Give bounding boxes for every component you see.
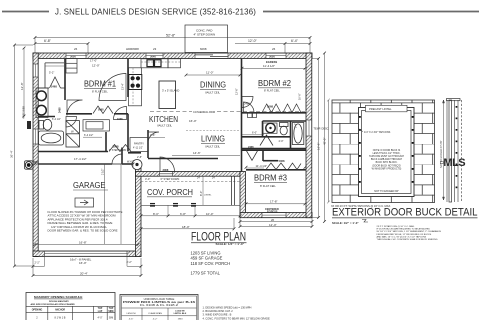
detail notes block (377, 225, 442, 241)
svg-text:3050: 3050 (269, 54, 275, 58)
svg-text:J. SNELL DANIELS DESIGN SERVIC: J. SNELL DANIELS DESIGN SERVICE (352-816… (55, 7, 256, 17)
kitchen sink double (147, 60, 161, 67)
kitchen dim 8'-4 (83, 134, 102, 137)
wall wh nook (128, 152, 141, 154)
svg-text:12’-0”: 12’-0” (92, 64, 100, 68)
svg-text:LESS THAN 1 1/2” THICK,: LESS THAN 1 1/2” THICK, (373, 152, 401, 155)
svg-text:6068: 6068 (200, 47, 207, 51)
svg-text:20’-4”: 20’-4” (80, 272, 88, 276)
door arc bath1 (67, 100, 83, 116)
detail big title (332, 207, 478, 219)
room label LIVING (201, 135, 225, 149)
svg-text:3040: 3040 (150, 54, 156, 58)
cathedral ridge dashed line (150, 111, 305, 113)
svg-text:TOP: TOP (98, 308, 103, 310)
dimension overall 52'-8" top (35, 38, 310, 54)
water heater (132, 160, 142, 170)
svg-text:8 1 W 1 B: 8 1 W 1 B (55, 316, 66, 319)
svg-text:BDRM #3: BDRM #3 (254, 174, 288, 183)
door arc wic (66, 117, 77, 128)
door jamb garage entry (121, 148, 123, 165)
vanity counter bath1 (36, 88, 48, 118)
svg-text:8’-0”: 8’-0” (153, 212, 159, 216)
wall garage bottom (33, 251, 141, 256)
svg-text:CATHEDRAL RDM: CATHEDRAL RDM (193, 110, 215, 114)
svg-text:FLOOR SLOPED 3% TOWARD OH DOOR: FLOOR SLOPED 3% TOWARD OH DOOR PER FOOTN… (48, 210, 123, 214)
door opening (359, 108, 415, 197)
wall left exterior garage (33, 162, 38, 257)
svg-text:2 1/2”: 2 1/2” (101, 168, 104, 175)
door 3068 porch opening (160, 172, 173, 176)
living clg dashed (186, 130, 240, 132)
linen closet bdrm1 (66, 59, 77, 74)
wall left exterior house (33, 53, 38, 162)
svg-text:10’-0”: 10’-0” (298, 93, 302, 100)
svg-text:THROUGH ALL S/C CONCRETE SLAB: THROUGH ALL S/C CONCRETE SLAB FOR BUCK S… (377, 238, 438, 241)
svg-text:5068: 5068 (98, 109, 104, 112)
bifold closet bdrm3 (266, 163, 301, 170)
window bdrm2 egress top wall (266, 53, 286, 58)
wall bath2 vanity divider (262, 121, 264, 137)
door leaf bdrm3 (247, 151, 258, 161)
door arc garage entry (112, 154, 122, 164)
wall living/porch south (136, 172, 241, 177)
svg-text:4’-0”: 4’-0” (279, 140, 284, 143)
svg-text:24: 24 (197, 177, 200, 180)
bath2 sink (266, 123, 275, 132)
svg-text:SIDE: SIDE (108, 311, 114, 313)
wall hall south (148, 158, 218, 160)
window bath top wall (66, 53, 86, 58)
buck center note block (369, 150, 404, 171)
wall bdrm3 south exterior (240, 213, 312, 218)
svg-text:16’-8”: 16’-8” (317, 143, 321, 150)
svg-text:8’ FLAT CEIL: 8’ FLAT CEIL (260, 184, 276, 188)
porch dim 18'-0 (141, 218, 234, 229)
interior walls (38, 59, 306, 172)
svg-text:(DOOR BUCK NOT REQ’D: (DOOR BUCK NOT REQ’D (372, 165, 401, 167)
svg-text:4’-11 1/2”: 4’-11 1/2” (133, 147, 143, 150)
kitchen upper cabinets dashed (133, 62, 181, 106)
bifold laundry (109, 145, 131, 152)
svg-text:W/ 1/4” X 2 3/4” TAPCONS, 1 1/: W/ 1/4” X 2 3/4” TAPCONS, 1 1/2” EMBEDME… (377, 230, 442, 233)
wall bdrm1 south (66, 113, 92, 115)
wall bdrm2 south closet (242, 112, 307, 114)
wall bdrm3 north double (242, 148, 307, 150)
wall top exterior (33, 53, 312, 59)
attic access garage (75, 198, 94, 207)
room label DINING (200, 81, 226, 95)
svg-text:24: 24 (212, 177, 215, 180)
dimension row second top (35, 44, 310, 54)
svg-text:1779 SF TOTAL: 1779 SF TOTAL (191, 270, 221, 275)
wall tub nook (290, 121, 292, 149)
svg-text:5’-2”: 5’-2” (49, 71, 54, 75)
detail left dim line (327, 99, 330, 204)
porch post labels 24 (197, 177, 215, 180)
dim 14'-6 living (172, 151, 240, 156)
right vertical dim line inner (312, 59, 319, 218)
wall bdrm2 west (241, 59, 243, 172)
svg-text:12’-0”: 12’-0” (269, 223, 277, 227)
counter left (129, 68, 142, 106)
svg-text:10’-0”: 10’-0” (206, 212, 213, 216)
title rule right (263, 11, 479, 13)
svg-text:6’-0”: 6’-0” (252, 132, 257, 135)
svg-text:16’-0”: 16’-0” (189, 119, 197, 123)
svg-text:11’-0”: 11’-0” (206, 71, 213, 75)
wall garage right / porch left (136, 166, 142, 257)
dim 11'-4 bdrm3 (246, 164, 267, 168)
FLOOR PLAN title (191, 232, 247, 244)
svg-text:ANCHOR: ANCHOR (55, 309, 65, 312)
laundry washer dryer (66, 121, 79, 147)
wall bath south jog (38, 116, 55, 118)
conc pad box (185, 25, 228, 53)
wall bath2 north (263, 120, 307, 122)
svg-text:ATTIC ACCESS 22”X30” W/ 36” MI: ATTIC ACCESS 22”X30” W/ 36” MIN HEADROOM (48, 214, 116, 218)
svg-text:ADD SIZE FOR MODULAR OPNG FRAM: ADD SIZE FOR MODULAR OPNG FRAMED (31, 303, 76, 306)
door arc closet bdrm2 (244, 102, 255, 113)
svg-text:2’-2”: 2’-2” (35, 261, 40, 265)
label egress bdrm2 (242, 60, 305, 69)
svg-text:12’-8”: 12’-8” (20, 82, 24, 90)
svg-text:1/2” DRYWALL FINISH W/ R-13 IN: 1/2” DRYWALL FINISH W/ R-13 INSUL (51, 225, 108, 229)
refrigerator (168, 59, 181, 68)
svg-text:6’-4”: 6’-4” (291, 39, 298, 43)
right vertical dim line outer (324, 53, 326, 222)
svg-text:PANTRY: PANTRY (134, 143, 144, 146)
detail hook symbol (362, 220, 368, 223)
door arc porch/living (160, 157, 175, 172)
svg-text:1203 SF LIVING: 1203 SF LIVING (191, 250, 221, 255)
svg-text:EXTERIOR DOOR BUCK DETAIL: EXTERIOR DOOR BUCK DETAIL (332, 207, 478, 219)
svg-text:SCALE: 1/4” = 1’-0”: SCALE: 1/4” = 1’-0” (216, 242, 245, 246)
door arc hall (114, 107, 127, 120)
label step down porch (145, 177, 179, 181)
svg-text:APPLIANCE PROTECTION PER FBCR: APPLIANCE PROTECTION PER FBCR 303.4 (48, 217, 109, 221)
svg-text:4’-6”: 4’-6” (150, 133, 155, 137)
svg-text:BUCK INTO BLOCK.: BUCK INTO BLOCK. (376, 162, 398, 164)
svg-text:BDRM #2: BDRM #2 (258, 79, 292, 88)
svg-text:▫MLS: ▫MLS (440, 157, 465, 169)
svg-text:2468: 2468 (244, 103, 250, 106)
range (129, 75, 142, 90)
door arc pantry (148, 132, 159, 143)
dim 16'-8 garage bottom (35, 240, 138, 244)
svg-text:MASONRY OPENING SCHEDULE: MASONRY OPENING SCHEDULE (34, 295, 83, 299)
svg-text:8’-0”: 8’-0” (199, 191, 203, 196)
room label BDRM #1 (84, 80, 116, 94)
dim extension lines garage (105, 164, 122, 244)
svg-text:4’-0”: 4’-0” (97, 316, 102, 319)
svg-text:6’-8”: 6’-8” (44, 39, 51, 43)
svg-text:2’-6”: 2’-6” (295, 123, 298, 128)
svg-text:AND MAX. 16” O.C. W/ (2) 1/4”: AND MAX. 16” O.C. W/ (2) 1/4” X 2 1/2” T… (377, 235, 427, 238)
bath2 vanity (263, 123, 277, 133)
svg-text:26: 26 (272, 47, 276, 51)
svg-text:17’-4 1/2”: 17’-4 1/2” (74, 157, 87, 161)
svg-text:45’-0”: 45’-0” (323, 138, 327, 145)
wall bdrm1 east (127, 59, 129, 98)
buck section side view (447, 99, 462, 203)
porch edge line (141, 204, 240, 206)
room label BDRM #3 (254, 174, 288, 189)
garage notes text block (48, 210, 123, 233)
svg-text:5068: 5068 (279, 159, 285, 163)
svg-text:DINING: DINING (200, 81, 226, 90)
wall bath/bdrm1 divider (64, 59, 66, 101)
room label BDRM #2 (258, 79, 292, 93)
dim 17'-4 garage (35, 157, 133, 168)
wic closet walls (38, 63, 65, 88)
svg-text:LINTEL BLK: LINTEL BLK (174, 313, 187, 315)
svg-text:OPENING: OPENING (32, 310, 43, 312)
brick wall (332, 100, 435, 203)
svg-text:52’-8”: 52’-8” (166, 34, 176, 38)
label centered egress bdrm3 (265, 208, 279, 214)
wall garage north (38, 163, 112, 165)
svg-text:LINTEL: LINTEL (204, 195, 212, 197)
island (159, 81, 176, 109)
bullseye marker (25, 161, 33, 169)
svg-text:13’-4”: 13’-4” (121, 83, 125, 90)
hall built-in counter (83, 120, 109, 131)
buck frame inner (362, 111, 412, 194)
svg-text:TEMP. DESC.: TEMP. DESC. (314, 128, 330, 131)
bath2 dim 6'-0 (242, 132, 264, 135)
pantry box (130, 138, 148, 152)
svg-text:DOOR BETWEEN GAR. & RES. TO BE: DOOR BETWEEN GAR. & RES. TO BE SOLID COR… (48, 229, 118, 233)
wall kitchen/hall east (147, 130, 149, 158)
porch east column line (232, 176, 235, 205)
room label KITCHEN (149, 115, 178, 128)
counter sink top (141, 59, 168, 68)
svg-text:4. CONC. FOOTERS TO BEAR MIN.: 4. CONC. FOOTERS TO BEAR MIN. 12” BELOW … (203, 316, 270, 320)
tub bath1 (39, 131, 64, 145)
svg-text:12’-0”: 12’-0” (248, 39, 257, 43)
dim 12'-0 below bdrm3 (240, 218, 312, 227)
svg-text:HDR8068: HDR8068 (126, 47, 139, 51)
svg-text:TAPCONS MUST GO THROUGH: TAPCONS MUST GO THROUGH (369, 155, 404, 158)
svg-text:3050: 3050 (70, 54, 76, 58)
svg-text:2X P.T. W/TAPCONS @ 16” O.C. M: 2X P.T. W/TAPCONS @ 16” O.C. MAX. (377, 225, 416, 228)
precast lintel label box (366, 105, 408, 112)
porch roof dashed line (141, 181, 240, 183)
dimension tick marks (13, 36, 326, 277)
svg-text:17’-8”: 17’-8” (270, 200, 277, 204)
left vertical dim line outer (15, 45, 34, 266)
svg-text:6’-4 1/2”: 6’-4 1/2” (52, 118, 61, 121)
svg-text:UNIFORM LOAD TABLE: UNIFORM LOAD TABLE (144, 297, 175, 301)
wic door leaf (50, 77, 61, 88)
svg-text:36’-4”: 36’-4” (10, 150, 14, 158)
title rule left (2, 11, 49, 13)
svg-text:FL 3108 & FL 3118.2: FL 3108 & FL 3118.2 (140, 304, 179, 307)
bdrm3 closet front (246, 169, 306, 171)
left vertical dim line inner (23, 48, 25, 116)
svg-text:459 SF GARAGE: 459 SF GARAGE (191, 256, 223, 261)
svg-text:TOP: TOP (109, 308, 114, 310)
svg-text:2468: 2468 (51, 84, 57, 88)
door arc bdrm2 (242, 97, 253, 108)
wall pantry (127, 114, 129, 152)
room label GARAGE (73, 180, 108, 190)
svg-text:3. WIND EXPOSURE : B: 3. WIND EXPOSURE : B (203, 313, 232, 317)
window kitchen top wall (146, 53, 163, 58)
svg-text:LENGTH: LENGTH (127, 313, 136, 315)
porch dim extension lines (141, 205, 240, 229)
svg-text:5068: 5068 (267, 105, 273, 109)
sliding glass door top wall (195, 53, 228, 58)
tapcon leader note (360, 129, 391, 134)
wall laundry west (105, 132, 107, 152)
door arc bath2 (260, 135, 273, 146)
svg-text:LIVING: LIVING (201, 135, 225, 144)
wic hanging rod (45, 65, 64, 67)
section dim line (443, 100, 445, 200)
bifold closet bdrm1 (93, 106, 113, 114)
svg-text:2. BUILDING RISK CAT. 2: 2. BUILDING RISK CAT. 2 (203, 309, 234, 313)
svg-text:23: 23 (153, 47, 157, 51)
svg-text:8’ FLAT CEIL: 8’ FLAT CEIL (264, 89, 280, 93)
wall bdrm3 closet L (262, 150, 264, 161)
svg-text:14’-6”: 14’-6” (193, 151, 201, 155)
svg-text:LAP: LAP (98, 310, 103, 313)
svg-text:4” STEP DOWN: 4” STEP DOWN (194, 33, 216, 37)
svg-text:IF DOOR BUCKS ARE REQUIRED TO: IF DOOR BUCKS ARE REQUIRED TO BE ATTACHE… (377, 228, 431, 231)
svg-text:FROM MASONRY EDGE, 12” FROM EN: FROM MASONRY EDGE, 12” FROM ENDS OF BUCK… (377, 233, 432, 236)
svg-text:6’-8”: 6’-8” (180, 212, 186, 216)
svg-text:PRECAST LINTEL: PRECAST LINTEL (369, 107, 392, 111)
bifold closet bdrm2 (262, 104, 281, 113)
svg-text:GARAGE: GARAGE (73, 180, 106, 190)
porch posts (150, 204, 196, 206)
svg-text:3’ x 5’ ISLAND: 3’ x 5’ ISLAND (162, 89, 179, 93)
bdrm2 wic marks (248, 113, 257, 118)
sink 2 (37, 105, 47, 115)
svg-text:VAULT CEIL: VAULT CEIL (205, 145, 220, 149)
svg-text:16’-0”: 16’-0” (79, 261, 87, 265)
svg-text:18’-0”: 18’-0” (182, 225, 190, 229)
svg-text:2468: 2468 (58, 107, 61, 113)
svg-text:SCALE: 1/2” = 1’-0”: SCALE: 1/2” = 1’-0” (332, 221, 359, 225)
bath2 tub (292, 123, 304, 145)
svg-text:6” STEP DOWN: 6” STEP DOWN (161, 177, 180, 181)
buck fastener dots (359, 108, 414, 183)
toilet bath1 (39, 119, 52, 130)
svg-text:NOTE: IF DOOR BUCK IS: NOTE: IF DOOR BUCK IS (373, 150, 401, 152)
svg-text:17’-0”: 17’-0” (90, 59, 97, 63)
window bath left wall (33, 64, 38, 77)
dim 17'-8 bdrm3 (246, 200, 305, 204)
svg-text:ROUGH MASONRY: ROUGH MASONRY (49, 300, 69, 303)
svg-text:EGRESS: EGRESS (267, 211, 278, 214)
svg-text:26: 26 (74, 47, 78, 51)
dim 26 below bdrm3 (240, 218, 312, 222)
garage door dim lines (33, 257, 141, 267)
dim 11'-0 dining (186, 71, 240, 76)
window tub left wall (33, 129, 38, 144)
wall right exterior (306, 53, 312, 218)
svg-text:16’-8”: 16’-8” (79, 240, 87, 244)
garage door opening (45, 251, 128, 256)
porch dim row (141, 212, 240, 216)
svg-text:1/4” X 2 3/4” TAPCONS: 1/4” X 2 3/4” TAPCONS (364, 131, 391, 134)
window bath2 right wall (306, 120, 311, 136)
svg-text:12’-6”: 12’-6” (235, 88, 239, 95)
porch vertical dim (199, 176, 203, 205)
svg-text:BDRM #1: BDRM #1 (84, 80, 116, 89)
wall bath2 south (242, 136, 291, 138)
wall hall/laundry (38, 151, 108, 153)
svg-text:11’-4 1/2”: 11’-4 1/2” (256, 164, 268, 168)
hall dim 4'-6 (148, 133, 165, 137)
svg-text:SIM: SIM (109, 316, 113, 319)
svg-text:6” STEP DOWN: 6” STEP DOWN (109, 149, 126, 152)
wall bdrm3 west exterior (240, 172, 246, 218)
svg-text:118 SF COV. PORCH: 118 SF COV. PORCH (191, 261, 231, 266)
svg-text:1068: 1068 (117, 118, 123, 121)
svg-text:11’-4 1/2”: 11’-4 1/2” (263, 64, 275, 68)
svg-text:COV. PORCH: COV. PORCH (147, 188, 193, 197)
door arc bdrm1 entry (99, 74, 126, 101)
hose bibb (27, 121, 31, 129)
svg-text:8’ FLAT CEIL: 8’ FLAT CEIL (92, 90, 108, 94)
svg-text:KITCHEN: KITCHEN (149, 115, 178, 124)
svg-text:3’-0”: 3’-0” (145, 177, 150, 181)
svg-text:6’-4 1/2”: 6’-4 1/2” (84, 134, 93, 137)
svg-text:CLEAR SPAN: CLEAR SPAN (148, 312, 162, 315)
svg-text:W.H.: W.H. (127, 160, 133, 163)
sink 1 (37, 91, 47, 101)
svg-text:1. DESIGN WIND SPEED (ult) = 1: 1. DESIGN WIND SPEED (ult) = 130 MPH (203, 305, 252, 309)
svg-text:NOT TO EXCEED 96”: NOT TO EXCEED 96” (374, 190, 399, 193)
svg-text:26: 26 (271, 218, 275, 222)
svg-text:BUCK JAMB AND THROUGH: BUCK JAMB AND THROUGH (371, 158, 402, 161)
svg-text:VAULT CEIL: VAULT CEIL (205, 91, 220, 95)
svg-text:2’-2”: 2’-2” (127, 260, 132, 264)
dim 20'-4 garage overall (33, 258, 141, 276)
svg-text:2468: 2468 (248, 146, 254, 149)
svg-text:VAULT CEIL: VAULT CEIL (157, 124, 172, 128)
svg-text:W: W (71, 130, 74, 134)
bath2 toilet (280, 123, 289, 135)
window bdrm3 egress (262, 213, 286, 218)
buck section fasteners (456, 106, 458, 188)
svg-text:FRAME WALL BETWEEN GAR. & RES.: FRAME WALL BETWEEN GAR. & RES. TO HAVE (48, 221, 113, 225)
svg-text:2’-8”: 2’-8” (137, 156, 142, 159)
svg-text:LOAD W/: LOAD W/ (175, 309, 185, 312)
svg-text:W/ MASONRY PRODUCTS): W/ MASONRY PRODUCTS) (372, 167, 402, 170)
